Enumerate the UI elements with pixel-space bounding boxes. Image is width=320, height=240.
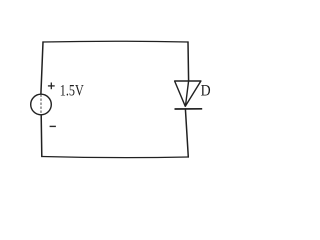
wire right lower bbox=[185, 109, 188, 157]
wire top bbox=[43, 40, 188, 43]
wire through diode bbox=[185, 81, 188, 106]
svg-text:1.5V: 1.5V bbox=[60, 83, 85, 100]
wire left lower bbox=[40, 115, 43, 157]
wire bottom bbox=[42, 157, 189, 158]
diode D triangle bbox=[175, 81, 201, 106]
voltage source V1 circle bbox=[31, 94, 52, 115]
svg-text:D: D bbox=[201, 83, 211, 100]
wire through source (faint) bbox=[40, 95, 42, 115]
plus sign bbox=[48, 83, 55, 90]
minus sign bbox=[50, 125, 56, 127]
wire right upper bbox=[187, 42, 190, 81]
wire left upper bbox=[41, 42, 43, 94]
diode cathode bar bbox=[175, 108, 203, 110]
